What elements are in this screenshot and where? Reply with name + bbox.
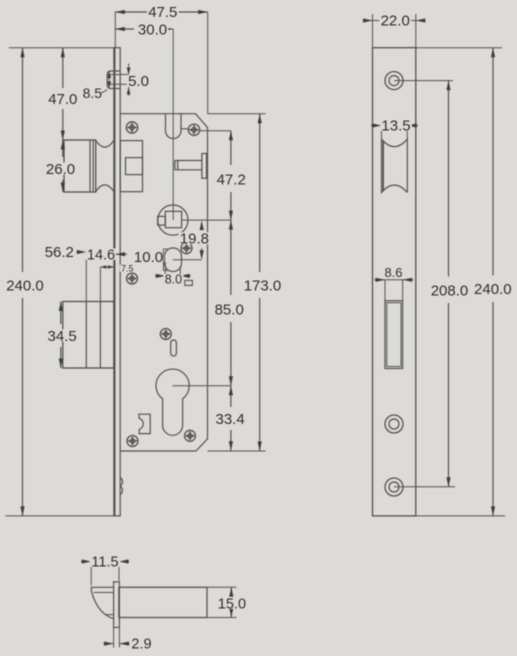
svg-text:19.8: 19.8 — [180, 231, 209, 248]
svg-text:14.6: 14.6 — [87, 247, 115, 263]
faceplate section bar — [114, 582, 120, 628]
dimension 5.0 tab lines — [108, 64, 150, 97]
faceplate top mounting tab — [107, 71, 120, 89]
hub stop notch — [158, 216, 166, 225]
dimension 240.0 faceplate height (right) — [416, 48, 513, 516]
dimension 8.0 roller width — [155, 262, 191, 287]
latch bolt tail — [126, 158, 143, 175]
svg-text:8.6: 8.6 — [384, 265, 402, 280]
latch spring piston — [175, 154, 207, 179]
dimension 15.0 case thickness — [207, 587, 247, 617]
dimension 10.0 roller with bracket — [133, 249, 168, 271]
dimension 56.2 with leader — [43, 244, 86, 301]
latch bolt tail guide — [120, 141, 142, 192]
lock case outline with chamfered corners — [120, 114, 207, 451]
dimension 26.0 latch height — [45, 140, 77, 192]
svg-text:5.0: 5.0 — [128, 73, 149, 90]
svg-text:47.2: 47.2 — [217, 171, 246, 188]
faceplate edge-on (left view) — [114, 48, 120, 516]
roller detent below hub — [165, 248, 182, 272]
dimension 22.0 faceplate width — [363, 12, 425, 47]
case body plan view — [119, 587, 207, 617]
svg-text:13.5: 13.5 — [381, 117, 410, 134]
svg-text:56.2: 56.2 — [45, 244, 74, 261]
deadbolt cutout — [385, 301, 403, 369]
faceplate weld bumps — [120, 477, 122, 494]
svg-text:11.5: 11.5 — [91, 554, 118, 570]
screw B top-right — [188, 124, 199, 135]
latch bolt waist grooves — [96, 140, 114, 191]
dimension 85.0 — [213, 220, 245, 386]
euro profile cylinder hole — [156, 369, 189, 435]
dimension 208.0 screw centres — [394, 81, 470, 487]
dimension 8.5 tab height — [81, 71, 111, 101]
svg-text:15.0: 15.0 — [218, 596, 246, 612]
latch bolt head — [64, 140, 96, 192]
dimension 173.0 case height — [242, 114, 282, 451]
screw hole middle — [385, 415, 403, 433]
vertical centerline through spindle — [172, 29, 174, 220]
svg-text:8.5: 8.5 — [83, 85, 103, 101]
dimension 30.0 backset — [115, 22, 173, 39]
stop pin square — [185, 280, 193, 285]
dimension 33.4 — [214, 386, 246, 451]
svg-text:173.0: 173.0 — [244, 277, 282, 294]
handle return spring slot — [166, 114, 182, 139]
screw C near roller — [181, 243, 192, 254]
dimension 19.8 — [179, 221, 211, 260]
dimension 47.0 plate top to latch — [47, 48, 79, 140]
reference line from slot to screw — [181, 128, 188, 130]
svg-text:8.0: 8.0 — [165, 273, 182, 287]
faceplate front face (right view) — [373, 48, 416, 516]
svg-text:240.0: 240.0 — [474, 281, 512, 298]
latch bolt tip plan view — [91, 587, 113, 618]
screw hole bottom — [385, 478, 403, 496]
svg-text:47.0: 47.0 — [48, 91, 77, 108]
dimension 8.6 deadbolt cutout width — [374, 265, 413, 301]
screw D above cylinder — [160, 329, 171, 340]
keyway slot — [171, 340, 177, 356]
screw F bottom-right — [185, 430, 196, 441]
screw E bottom-left — [127, 436, 138, 447]
dimension 34.5 deadbolt height — [46, 302, 78, 369]
svg-text:47.5: 47.5 — [148, 4, 177, 21]
dimension 14.6 — [86, 247, 127, 263]
svg-text:22.0: 22.0 — [381, 12, 410, 29]
case top and bottom extension lines — [208, 113, 266, 115]
screw G left of roller — [127, 273, 138, 284]
svg-text:26.0: 26.0 — [46, 161, 75, 178]
reference line cylinder centre — [173, 385, 231, 387]
svg-text:33.4: 33.4 — [215, 411, 244, 428]
reference line spindle to dimension column — [182, 219, 231, 221]
svg-text:10.0: 10.0 — [134, 249, 163, 266]
svg-text:34.5: 34.5 — [47, 328, 76, 345]
svg-text:240.0: 240.0 — [6, 277, 44, 294]
locking lug detail left of cylinder — [139, 414, 150, 433]
dimension 11.5 latch projection — [81, 554, 129, 585]
dimension 13.5 latch cutout width — [371, 117, 418, 139]
dimension 47.5 overall depth — [115, 4, 207, 114]
dimension 47.2 — [215, 131, 247, 220]
reference line roller to 19.8 dimension — [173, 259, 202, 261]
svg-text:208.0: 208.0 — [431, 282, 469, 299]
dimension 7.5 — [100, 263, 135, 301]
svg-text:7.5: 7.5 — [121, 263, 134, 273]
dimension 240.0 overall faceplate height (left) — [5, 48, 114, 516]
svg-text:85.0: 85.0 — [215, 301, 244, 318]
dimension 2.9 faceplate thickness — [103, 627, 153, 652]
svg-text:2.9: 2.9 — [131, 636, 151, 652]
spindle hub circle — [158, 205, 188, 235]
screw A top-left — [126, 122, 137, 133]
spindle square follower hole — [165, 211, 181, 227]
screw hole top — [385, 72, 403, 90]
reference line screw-top for 47.2 — [200, 130, 231, 132]
latch opening with roller profile — [382, 139, 408, 192]
svg-text:30.0: 30.0 — [138, 22, 167, 39]
deadbolt (extended) with internal plates — [63, 302, 114, 369]
